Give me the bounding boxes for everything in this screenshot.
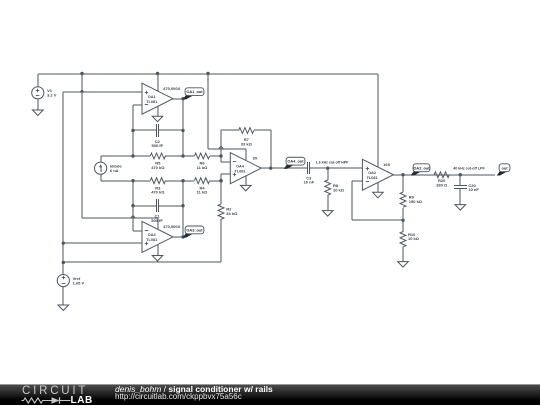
svg-text:OA2: OA2	[368, 171, 376, 175]
svg-text:TL081: TL081	[146, 100, 157, 104]
svg-text:500 fF: 500 fF	[152, 143, 164, 148]
svg-text:6 nA: 6 nA	[110, 168, 119, 173]
svg-text:OA1: OA1	[148, 95, 156, 99]
svg-text:470,000X: 470,000X	[163, 86, 180, 91]
svg-text:OA4_out: OA4_out	[287, 159, 304, 164]
svg-text:10 nF: 10 nF	[468, 187, 479, 192]
svg-text:TL081: TL081	[146, 238, 157, 242]
svg-text:1.6 kHz cut-off HPF: 1.6 kHz cut-off HPF	[316, 160, 350, 164]
svg-text:10 kΩ: 10 kΩ	[333, 187, 345, 192]
svg-text:3.2 V: 3.2 V	[47, 93, 57, 98]
svg-text:470,000X: 470,000X	[163, 224, 180, 229]
svg-text:10 kΩ: 10 kΩ	[408, 236, 420, 241]
svg-text:10 nF: 10 nF	[304, 180, 315, 185]
svg-text:11 kΩ: 11 kΩ	[197, 165, 209, 170]
svg-text:1.65 V: 1.65 V	[73, 280, 85, 285]
svg-text:330 Ω: 330 Ω	[436, 182, 448, 187]
svg-text:TL081: TL081	[367, 176, 378, 180]
svg-text:11 kΩ: 11 kΩ	[197, 190, 209, 195]
svg-text:TL081: TL081	[235, 169, 246, 173]
svg-text:out: out	[501, 165, 508, 170]
svg-text:OA3: OA3	[148, 233, 156, 237]
svg-text:470 kΩ: 470 kΩ	[151, 165, 165, 170]
svg-text:33 kΩ: 33 kΩ	[226, 211, 238, 216]
svg-text:OA3_out: OA3_out	[186, 227, 203, 232]
svg-text:33 kΩ: 33 kΩ	[241, 141, 253, 146]
svg-text:150 kΩ: 150 kΩ	[409, 199, 423, 204]
svg-text:OA1_out: OA1_out	[186, 89, 203, 94]
svg-text:OA4: OA4	[236, 164, 245, 168]
svg-text:40 kHz cut-off LPF: 40 kHz cut-off LPF	[453, 167, 485, 171]
svg-text:OA2_out: OA2_out	[413, 165, 430, 170]
svg-text:470 kΩ: 470 kΩ	[151, 190, 165, 195]
svg-text:16X: 16X	[383, 162, 390, 167]
svg-text:500 fF: 500 fF	[151, 218, 163, 223]
svg-text:3X: 3X	[252, 156, 257, 161]
